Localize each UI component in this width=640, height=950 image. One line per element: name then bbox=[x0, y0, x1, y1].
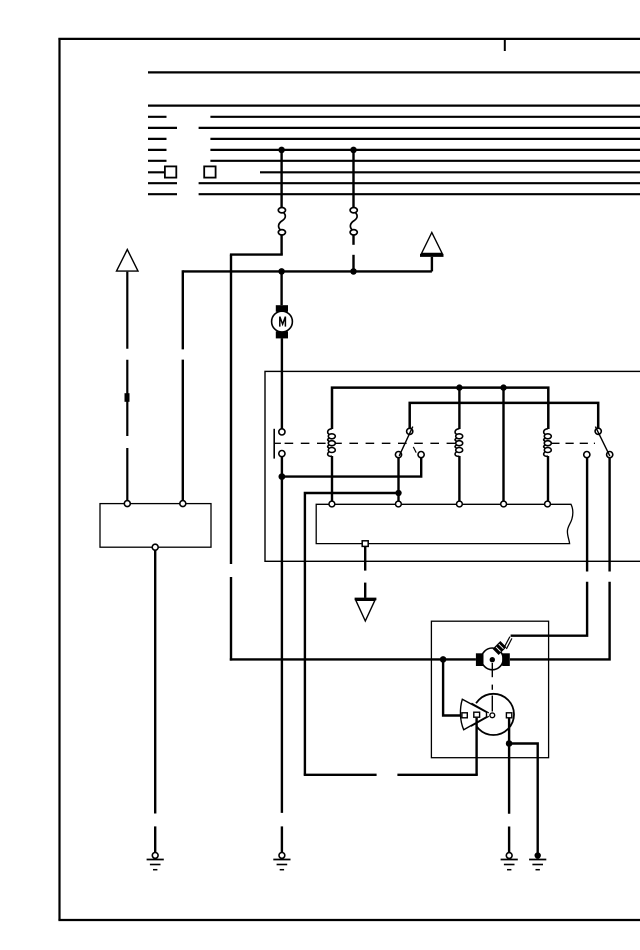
connector square S2 bbox=[204, 166, 215, 177]
junction dot rotor wire bbox=[506, 740, 513, 747]
motor wire upper bbox=[280, 271, 282, 305]
junction dot motor branch bbox=[279, 473, 286, 480]
coil3 wire down bbox=[547, 456, 549, 504]
dashed link igniter to distributor bbox=[491, 663, 493, 712]
wire below connector B (with break) bbox=[352, 235, 354, 245]
long wire from y=254 corner down to igniter bbox=[230, 255, 232, 661]
coil1 wire down bbox=[331, 456, 333, 504]
wire bus1 to ECM terminal bbox=[502, 388, 504, 504]
wire control box to ground bbox=[154, 550, 156, 852]
relay box (fan control unit) bbox=[265, 371, 640, 561]
border tick bbox=[504, 39, 506, 51]
junction dot y=493 bbox=[395, 490, 401, 496]
power arrow left (up) bbox=[117, 250, 139, 272]
wire A drop from row4 bbox=[280, 150, 282, 207]
thick branch y=476.6 to switch1 right throw bbox=[282, 458, 421, 477]
motor wire lower bbox=[281, 338, 283, 429]
power arrow right (up) bbox=[420, 233, 444, 272]
splice marker on dashed wire bbox=[125, 393, 130, 402]
junction dot bus1 b bbox=[500, 384, 506, 390]
ground G4 (case ground) bbox=[529, 852, 546, 869]
ECM bottom terminal bbox=[362, 541, 368, 547]
ECM terminal 2 bbox=[396, 501, 402, 507]
bus group row 8 bbox=[148, 193, 640, 195]
switch SW2 bbox=[584, 427, 613, 458]
coil2 body bbox=[455, 429, 463, 457]
bus group row 5 bbox=[148, 160, 640, 162]
bus group row 1 bbox=[148, 116, 640, 118]
pickup terminal 2 bbox=[474, 712, 480, 717]
switch SW1 bbox=[395, 427, 424, 458]
distributor centre pin bbox=[490, 713, 495, 718]
wire B drop from row4 bbox=[352, 150, 354, 207]
ground G3 bbox=[501, 853, 518, 870]
bus group row 2 bbox=[148, 127, 640, 129]
junction dot row4 left bbox=[278, 147, 285, 154]
relay supply bus 2 bbox=[410, 403, 599, 429]
logic ground arrow (down) bbox=[355, 599, 377, 621]
igniter feed horizontal bbox=[230, 658, 476, 660]
rotor terminal bbox=[506, 713, 511, 718]
ECM box with torn edge bbox=[316, 504, 573, 543]
wire pickup2 down and left bbox=[304, 718, 478, 775]
junction dot at motor drop bbox=[278, 268, 285, 275]
coil1 body bbox=[328, 429, 336, 457]
thick branch y=493 bbox=[305, 493, 399, 775]
bus group row 3 bbox=[148, 138, 640, 140]
wire below relay contact to ground bbox=[281, 457, 283, 853]
ground G1 bbox=[147, 853, 164, 870]
wire corner to left bus drop bbox=[230, 253, 283, 255]
coil2 wire down bbox=[458, 456, 460, 504]
ECM terminal 3 bbox=[457, 501, 463, 507]
igniter unit bbox=[476, 637, 512, 670]
coil3 body bbox=[544, 429, 552, 457]
SW1 left throw wire to ECM bbox=[397, 458, 399, 504]
relay supply bus 1 bbox=[332, 388, 548, 429]
wire from y271 corner down to control box bbox=[182, 270, 184, 501]
pickup terminal 1 bbox=[462, 713, 467, 718]
distributor bbox=[460, 694, 514, 735]
SW2 left throw wire down bbox=[586, 458, 588, 572]
ECM terminal 4 bbox=[501, 501, 507, 507]
wire ECM bottom to logic ground arrow bbox=[364, 546, 366, 597]
control unit box bbox=[100, 504, 211, 548]
bus line 1 bbox=[148, 71, 640, 73]
connector square S1 bbox=[165, 166, 176, 177]
inline connector B bbox=[350, 208, 357, 236]
junction dot row4 right bbox=[350, 147, 357, 154]
ECM terminal 5 bbox=[545, 501, 551, 507]
relay contact pair left bbox=[274, 429, 285, 459]
bus group row 4 bbox=[148, 149, 640, 151]
inline connector A bbox=[278, 208, 285, 236]
branch to ground G4 bbox=[509, 744, 538, 853]
terminal pin right bbox=[180, 501, 186, 507]
wire rotor terminal down bbox=[508, 718, 510, 744]
junction dot igniter feed bbox=[440, 656, 447, 663]
bus line 2 bbox=[148, 104, 640, 106]
dashed wire below left arrow bbox=[126, 272, 128, 501]
wire rotor to ground G3 bbox=[508, 744, 510, 853]
junction dot bus1 a bbox=[456, 384, 462, 390]
terminal pin left bbox=[124, 501, 130, 507]
ground G2 bbox=[273, 853, 290, 870]
terminal pin bottom bbox=[152, 544, 158, 550]
main horizontal wire y=271 bbox=[183, 270, 432, 272]
motor M1 bbox=[272, 305, 293, 338]
bus group row 6 bbox=[148, 171, 640, 173]
junction dot at wire B end bbox=[350, 268, 357, 275]
SW2 right throw wire down bbox=[608, 458, 610, 572]
dashed linkage line bbox=[285, 442, 456, 444]
ECM terminal 1 bbox=[329, 501, 335, 507]
relay coil L1 bbox=[458, 388, 460, 429]
wire below connector A bbox=[280, 235, 282, 255]
distributor box bbox=[431, 621, 548, 758]
bus group row 7 bbox=[148, 182, 640, 184]
wire dot to pickup bbox=[443, 659, 461, 715]
